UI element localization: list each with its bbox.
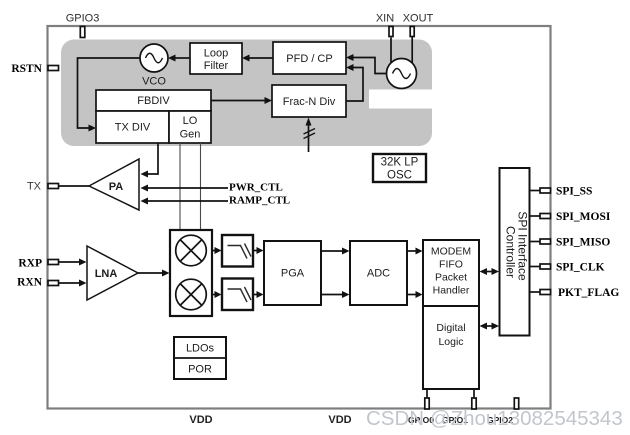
- PA amplifier triangle: [89, 159, 139, 210]
- crystal oscillator circle: [387, 59, 417, 89]
- svg-text:OSC: OSC: [387, 170, 412, 182]
- wire XOUT to crystal: [411, 37, 413, 64]
- box LO Gen: [169, 111, 211, 143]
- wire divider ratio input (below Frac-N Div): [308, 123, 310, 152]
- arrowhead into PA (PWR_CTL): [141, 185, 149, 192]
- svg-text:RSTN: RSTN: [11, 63, 42, 75]
- arrowhead into mixer block: [162, 270, 170, 277]
- VCO circle U-VCO: [140, 44, 168, 72]
- filter box 1: [222, 235, 253, 267]
- box LDOs / POR: [174, 337, 226, 379]
- svg-text:PGA: PGA: [281, 268, 305, 280]
- svg-text:ADC: ADC: [367, 268, 390, 280]
- box Digital Logic: [423, 306, 479, 389]
- VCO sine symbol: [146, 53, 163, 63]
- wire mixer Q to filter 2: [212, 294, 215, 296]
- pin SPI_MOSI: [540, 214, 551, 219]
- box PGA: [264, 241, 321, 305]
- svg-text:Logic: Logic: [438, 336, 463, 348]
- wire PWR_CTL to PA: [147, 187, 228, 189]
- svg-text:POR: POR: [188, 364, 212, 376]
- svg-text:Filter: Filter: [204, 60, 229, 72]
- svg-text:FIFO: FIFO: [439, 259, 463, 271]
- box ADC: [350, 241, 407, 305]
- arrowhead into ADC (I): [342, 248, 350, 255]
- svg-text:MODEM: MODEM: [431, 246, 471, 258]
- svg-text:LDOs: LDOs: [186, 343, 215, 355]
- crystal sine symbol: [393, 69, 411, 79]
- wire RAMP_CTL to PA: [147, 200, 228, 202]
- notch (white cut in shaded region): [369, 90, 433, 109]
- box Frac-N Div: [272, 85, 346, 117]
- svg-text:RXN: RXN: [17, 277, 43, 289]
- box MODEM FIFO Packet Handler: [423, 240, 479, 306]
- pin XOUT: [410, 27, 414, 37]
- wire VCO to TX DIV: [78, 58, 141, 128]
- box PFD / CP: [273, 42, 346, 74]
- svg-text:PFD / CP: PFD / CP: [286, 53, 332, 65]
- svg-text:LNA: LNA: [95, 268, 118, 280]
- wire XIN to crystal: [390, 38, 392, 63]
- arrowhead into ADC (Q): [342, 291, 350, 298]
- wire Digital Logic to GPIO0 pin: [426, 389, 428, 399]
- svg-text:TX DIV: TX DIV: [115, 122, 151, 134]
- svg-text:SPI_CLK: SPI_CLK: [556, 262, 605, 274]
- arrowhead into TX DIV: [89, 125, 97, 132]
- arrowhead up into Frac-N Div: [306, 118, 312, 126]
- arrowhead into MODEM (Q): [416, 291, 423, 298]
- box Loop Filter: [190, 43, 242, 74]
- svg-text:Digital: Digital: [436, 322, 465, 334]
- filter box 2: [222, 279, 253, 311]
- LO line left (LO Gen to mixers): [179, 143, 181, 230]
- svg-text:SPI_SS: SPI_SS: [556, 186, 592, 198]
- svg-text:RAMP_CTL: RAMP_CTL: [229, 195, 290, 207]
- arrowhead into VCO: [168, 55, 176, 62]
- pin GPIO0: [425, 398, 429, 409]
- wire PGA to ADC (I): [321, 250, 343, 252]
- wire PFD/CP to Loop Filter: [248, 57, 273, 59]
- wire crystal to PFD/CP: [352, 58, 387, 74]
- wire Loop Filter to VCO: [174, 57, 190, 59]
- arrowhead into LNA (RXP): [79, 259, 87, 266]
- arrowhead into LNA (RXN): [79, 280, 87, 287]
- chip outline: [48, 26, 551, 409]
- wire ADC to MODEM (I): [407, 250, 416, 252]
- svg-text:FBDIV: FBDIV: [137, 95, 170, 107]
- arrowhead into filter 2: [215, 291, 222, 298]
- arrowhead into filter 1: [215, 247, 222, 254]
- wire LNA to mixers: [138, 272, 162, 274]
- svg-text:Loop: Loop: [204, 48, 228, 60]
- wire TX DIV to PA: [147, 143, 158, 174]
- svg-text:XIN: XIN: [376, 13, 394, 25]
- box TX DIV: [96, 111, 169, 143]
- wire filter 2 to PGA: [253, 294, 257, 296]
- wire Digital Logic to GPIO1 pin: [473, 389, 475, 399]
- arrowhead into PA (from TX DIV): [141, 171, 149, 178]
- arrowhead into Loop Filter: [242, 55, 250, 62]
- pin GPIO2: [514, 398, 518, 409]
- pin SPI_SS: [540, 188, 551, 193]
- arrowhead into MODEM (I): [416, 248, 423, 255]
- svg-text:Controller: Controller: [504, 226, 518, 278]
- wire mixer I to filter 1: [212, 250, 215, 252]
- arrowhead into Frac-N Div: [265, 97, 273, 104]
- mixer Q (bottom): [176, 279, 207, 310]
- wire Frac-N Div to PFD/CP: [346, 68, 363, 102]
- wire PGA to ADC (Q): [321, 294, 343, 296]
- arrowhead into PGA (Q): [257, 291, 264, 298]
- box 32K LP OSC: [373, 154, 426, 182]
- svg-text:RXP: RXP: [18, 257, 42, 269]
- svg-text:Frac-N Div: Frac-N Div: [283, 96, 336, 108]
- pin TX: [48, 184, 59, 189]
- LO line right (LO Gen to mixers): [200, 143, 202, 230]
- mixer I (top): [176, 235, 207, 266]
- svg-text:PKT_FLAG: PKT_FLAG: [558, 287, 619, 299]
- mixer block rectangle: [170, 230, 212, 316]
- arrowhead into PGA (I): [257, 247, 264, 254]
- wire filter 1 to PGA: [253, 250, 257, 252]
- svg-text:VDD: VDD: [328, 414, 351, 426]
- arrowhead into PFD/CP (ref input): [346, 54, 354, 61]
- filter 2 response icon: [228, 287, 252, 302]
- pin GPIO1: [472, 398, 476, 409]
- svg-text:VDD: VDD: [189, 414, 212, 426]
- wire SPI_MISO: [530, 241, 541, 243]
- pin RSTN: [48, 66, 59, 71]
- svg-text:VCO: VCO: [142, 76, 166, 88]
- svg-text:Handler: Handler: [433, 285, 470, 297]
- svg-text:GPIO3: GPIO3: [66, 13, 100, 25]
- box SPI Interface Controller: [500, 168, 530, 336]
- pin GPIO3: [80, 27, 85, 38]
- pin PKT_FLAG: [540, 290, 551, 295]
- svg-text:PA: PA: [109, 181, 124, 193]
- pin SPI_CLK: [540, 264, 551, 269]
- wire RXP to LNA: [59, 261, 81, 263]
- wire RXN to LNA: [59, 282, 81, 284]
- svg-text:32K LP: 32K LP: [381, 157, 419, 169]
- arrowhead into PA (RAMP_CTL): [141, 198, 149, 205]
- bus-width double slash: [304, 129, 316, 139]
- svg-text:Gen: Gen: [180, 129, 201, 141]
- double arrow Digital Logic to SPI controller: [485, 325, 494, 327]
- svg-text:LO: LO: [183, 115, 198, 127]
- box FBDIV: [96, 90, 211, 111]
- double arrow MODEM to SPI controller: [485, 271, 494, 273]
- svg-text:SPI_MOSI: SPI_MOSI: [556, 211, 611, 223]
- svg-text:PWR_CTL: PWR_CTL: [229, 182, 283, 194]
- LNA amplifier triangle: [87, 246, 138, 300]
- svg-text:Packet: Packet: [435, 272, 467, 284]
- pin RXP: [48, 260, 59, 265]
- svg-text:XOUT: XOUT: [403, 13, 434, 25]
- PLL shaded region: [61, 40, 432, 147]
- pin SPI_MISO: [540, 239, 551, 244]
- pin XIN: [389, 27, 393, 37]
- svg-text:SPI_MISO: SPI_MISO: [556, 237, 610, 249]
- wire TX pin to PA: [59, 185, 90, 187]
- pin RXN: [48, 281, 59, 286]
- wire SPI_SS: [530, 190, 541, 192]
- wire PKT_FLAG: [530, 291, 541, 293]
- wire ADC to MODEM (Q): [407, 294, 416, 296]
- wire FBDIV to Frac-N Div: [211, 100, 266, 102]
- svg-text:CSDN @Zhou13082545343: CSDN @Zhou13082545343: [366, 407, 623, 430]
- wire SPI_MOSI: [530, 215, 541, 217]
- svg-text:TX: TX: [27, 181, 42, 193]
- filter 1 response icon: [228, 244, 252, 259]
- wire SPI_CLK: [530, 266, 541, 268]
- arrowhead into PFD/CP (div input): [346, 64, 354, 71]
